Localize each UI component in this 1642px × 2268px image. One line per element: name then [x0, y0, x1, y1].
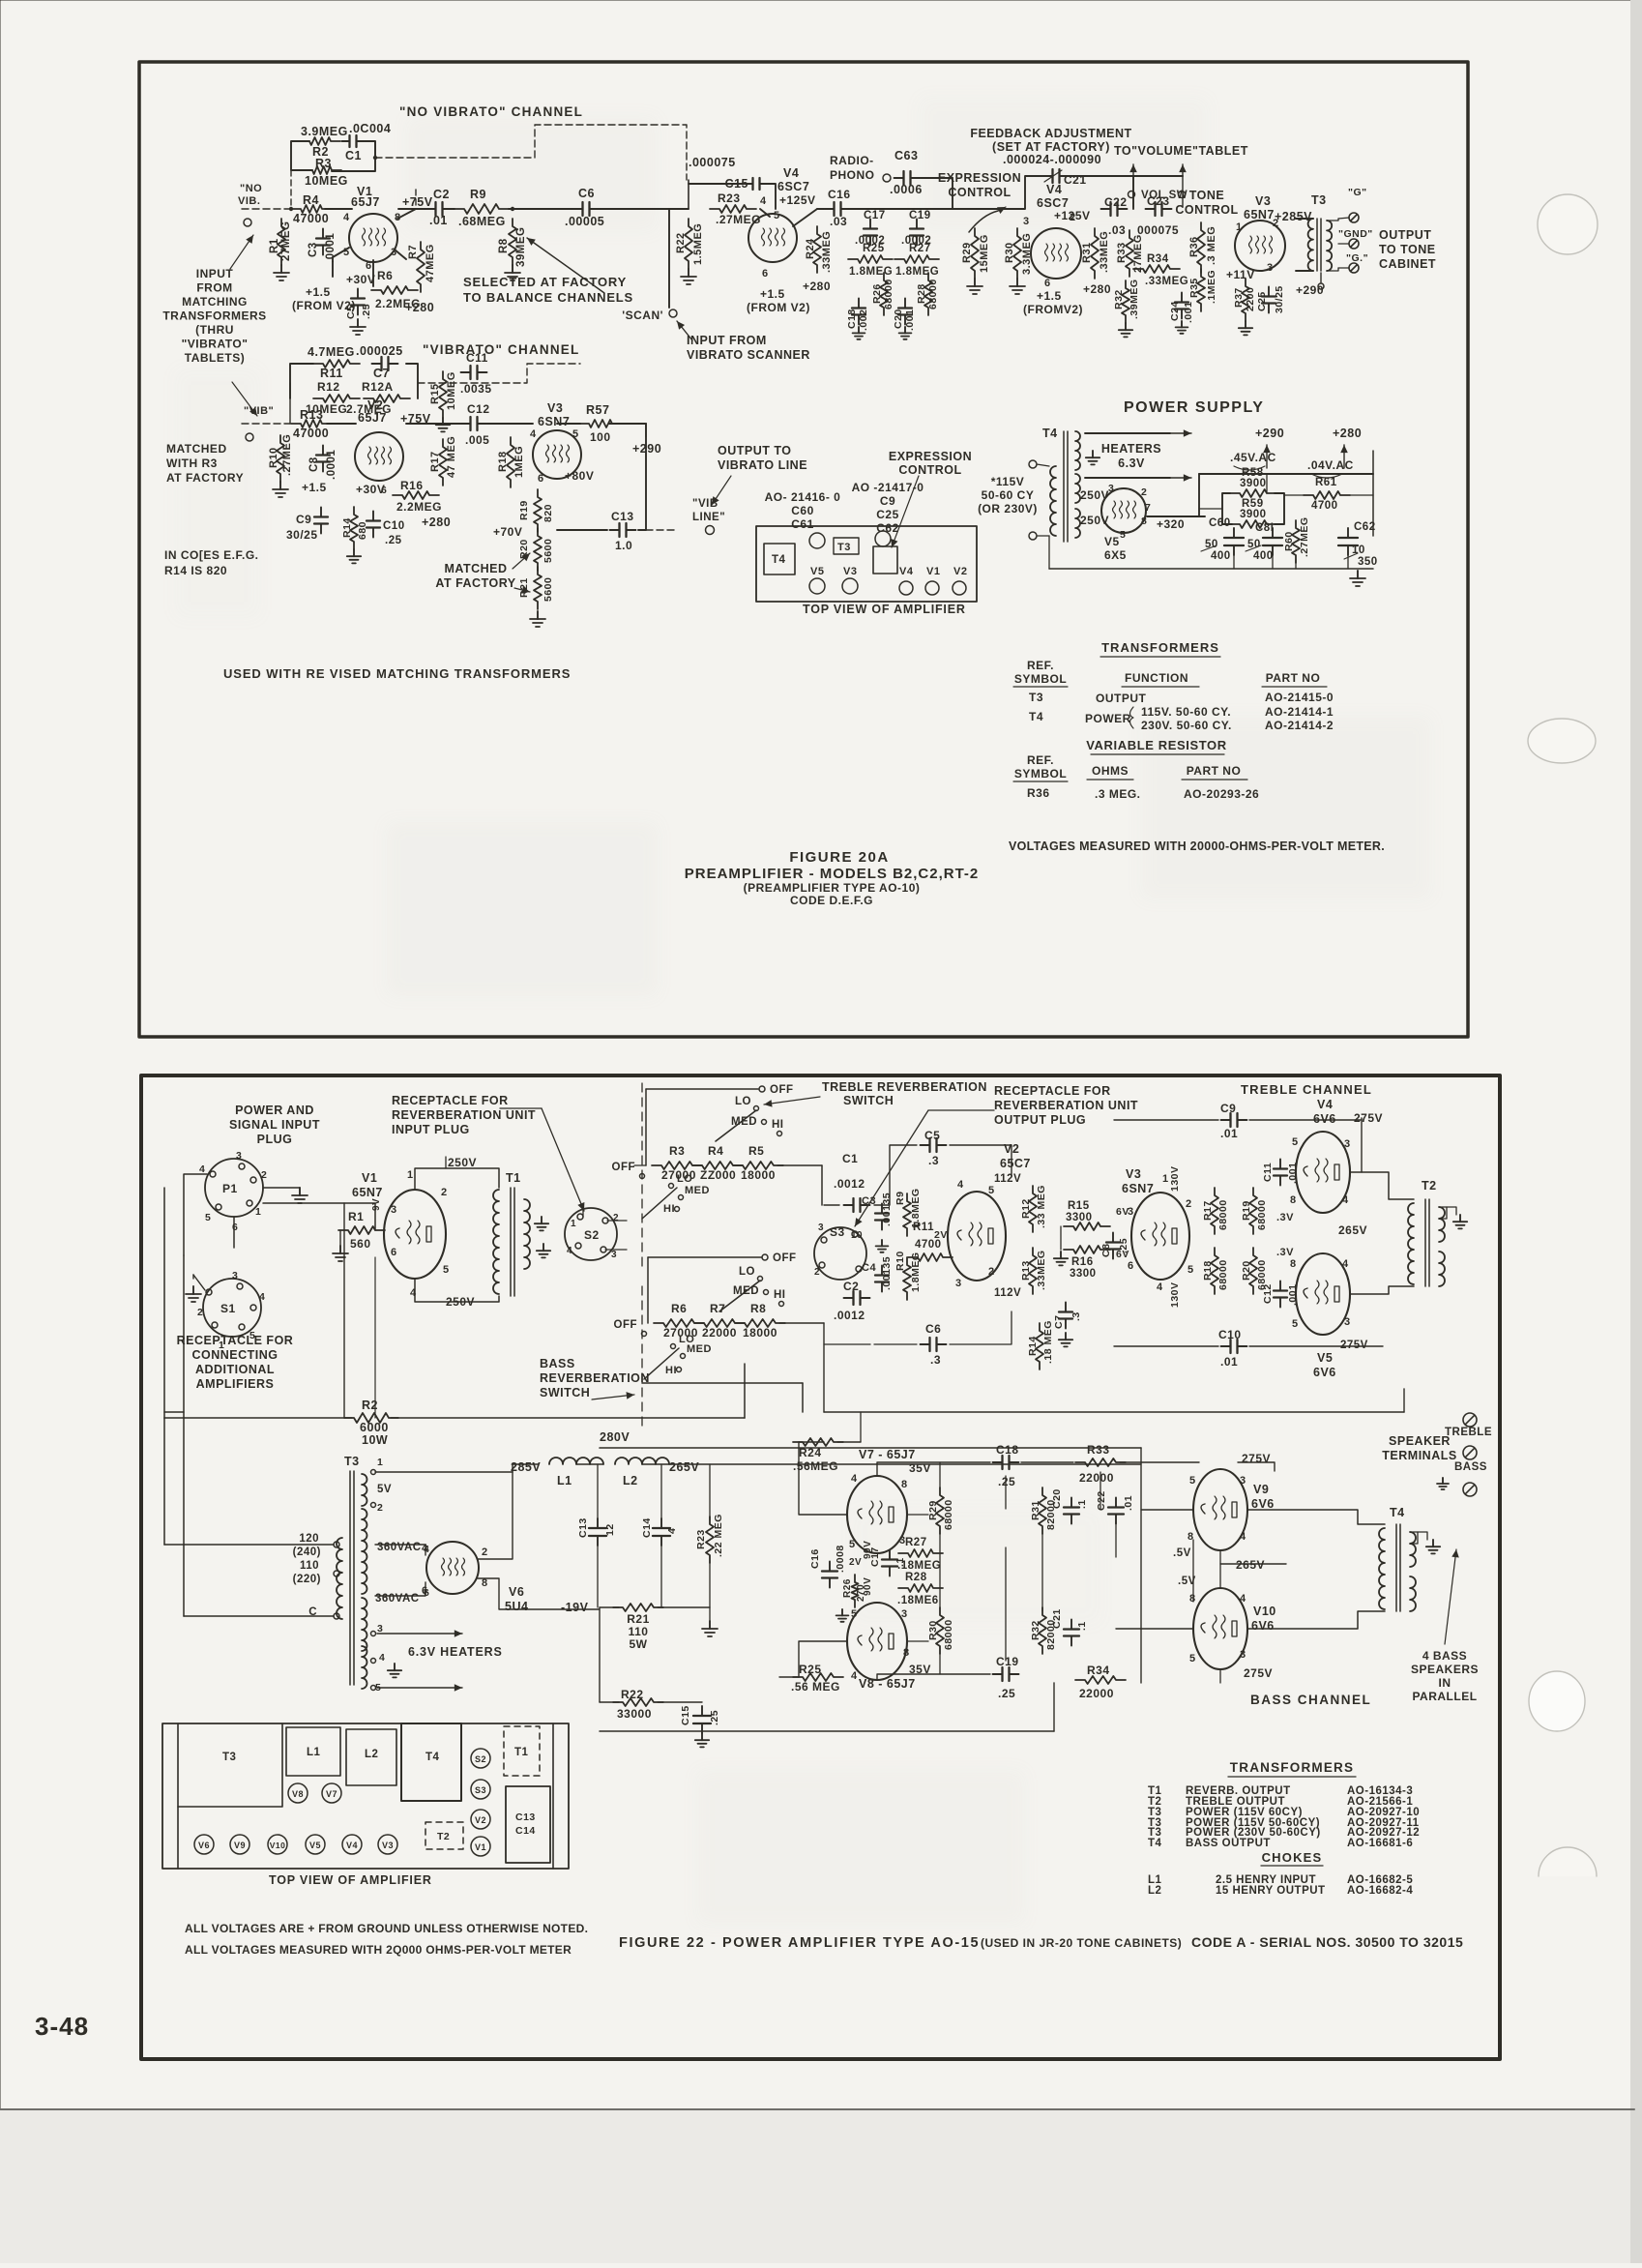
svg-text:275V: 275V — [1242, 1452, 1271, 1465]
svg-text:SELECTED AT FACTORY: SELECTED AT FACTORY — [463, 275, 627, 289]
svg-text:V9: V9 — [234, 1841, 246, 1850]
svg-text:4: 4 — [1240, 1531, 1246, 1543]
svg-text:6: 6 — [538, 473, 544, 485]
ground under R1 — [339, 1230, 341, 1246]
svg-text:1: 1 — [1236, 221, 1243, 233]
svg-text:6: 6 — [366, 260, 372, 272]
svg-text:R31: R31 — [1030, 1500, 1041, 1520]
svg-text:C11: C11 — [1262, 1163, 1274, 1182]
svg-text:68000: 68000 — [1217, 1259, 1229, 1290]
svg-text:T3: T3 — [1029, 691, 1043, 704]
svg-text:6: 6 — [1128, 1260, 1134, 1272]
svg-text:350: 350 — [1358, 556, 1378, 568]
wire R9 to C6 to scan line — [509, 208, 578, 210]
svg-text:R18: R18 — [1202, 1260, 1214, 1281]
svg-text:820: 820 — [542, 504, 554, 522]
svg-text:65J7: 65J7 — [358, 411, 387, 425]
svg-text:AT FACTORY: AT FACTORY — [166, 471, 244, 485]
svg-text:R4: R4 — [303, 193, 319, 207]
svg-text:8: 8 — [901, 1479, 908, 1490]
svg-text:3: 3 — [1240, 1475, 1246, 1487]
svg-text:.000024-.000090: .000024-.000090 — [1003, 153, 1101, 166]
ground under R26 — [841, 1609, 843, 1615]
svg-text:65N7: 65N7 — [352, 1186, 383, 1199]
svg-text:FIGURE 20A: FIGURE 20A — [789, 849, 889, 866]
svg-text:18000: 18000 — [741, 1168, 776, 1182]
svg-text:TRANSFORMERS: TRANSFORMERS — [1230, 1760, 1354, 1775]
ground under C24 — [1181, 321, 1183, 327]
svg-text:C19: C19 — [909, 210, 931, 221]
resistor R24 .33MEG (vertical) — [813, 226, 821, 273]
V6 socket (top view) — [194, 1835, 214, 1854]
svg-text:R32: R32 — [1113, 289, 1125, 309]
svg-text:+30V: +30V — [346, 273, 375, 286]
resistor R9 .68MEG — [454, 204, 509, 214]
svg-text:4700: 4700 — [1311, 500, 1338, 512]
svg-text:6: 6 — [762, 268, 769, 280]
svg-text:.25: .25 — [709, 1710, 720, 1725]
svg-text:5W: 5W — [630, 1637, 648, 1651]
resistor R30 3.3MEG (vertical) — [1013, 228, 1021, 279]
svg-text:65J7: 65J7 — [351, 195, 380, 209]
svg-text:REF.: REF. — [1027, 659, 1054, 672]
resistor R27 .18MEG — [898, 1549, 943, 1557]
V2 socket (top view) — [471, 1810, 490, 1829]
resistor R11 4700 — [908, 1253, 953, 1261]
svg-text:(240): (240) — [293, 1546, 321, 1558]
svg-text:VIBRATO SCANNER: VIBRATO SCANNER — [687, 348, 810, 362]
svg-text:5: 5 — [988, 1185, 995, 1196]
svg-text:AT FACTORY: AT FACTORY — [435, 576, 515, 590]
svg-text:+290: +290 — [1296, 283, 1324, 297]
resistor R28 68000 (vertical) — [924, 273, 932, 315]
svg-text:+80V: +80V — [565, 469, 594, 483]
svg-text:R24: R24 — [799, 1446, 822, 1459]
svg-text:POWER: POWER — [1085, 712, 1131, 725]
svg-text:+1.5: +1.5 — [302, 481, 327, 494]
svg-text:4: 4 — [666, 1528, 678, 1534]
ground under R1 — [280, 265, 282, 273]
resistor R19 68000 (vertical) — [1249, 1188, 1257, 1234]
svg-text:5V: 5V — [377, 1484, 392, 1495]
resistor R2 6000 10W — [344, 1413, 398, 1423]
ground heaters — [1092, 451, 1094, 457]
ground under C5 — [357, 319, 359, 327]
capacitor C2 .0012 — [844, 1297, 854, 1299]
ground under R15 — [442, 418, 444, 425]
svg-text:.1: .1 — [1076, 1621, 1088, 1631]
svg-text:3: 3 — [1023, 216, 1030, 227]
svg-text:VOLTAGES MEASURED WITH 20000-O: VOLTAGES MEASURED WITH 20000-OHMS-PER-VO… — [1009, 839, 1385, 853]
svg-text:R14 IS 820: R14 IS 820 — [164, 564, 227, 577]
ground under R30 — [1016, 279, 1018, 286]
svg-text:265V: 265V — [669, 1460, 699, 1474]
wire T3 primary feed — [164, 1544, 334, 1546]
tube V2 6SC7 (bottom) — [948, 1192, 1006, 1281]
chassis top view box — [756, 526, 977, 602]
screw terminal treble 2 — [1463, 1446, 1477, 1459]
svg-text:(OR 230V): (OR 230V) — [978, 502, 1038, 515]
svg-text:6X5: 6X5 — [1104, 548, 1127, 562]
wire V1 to T1 — [415, 1168, 499, 1190]
wire choke bus — [513, 1463, 538, 1465]
crease line — [0, 2108, 1634, 2110]
resistor R34 22000 — [1075, 1676, 1126, 1684]
wire C6 loop — [824, 1343, 870, 1345]
wire R2 bus — [164, 1417, 352, 1419]
svg-text:R13: R13 — [300, 408, 323, 422]
svg-text:CHOKES: CHOKES — [1262, 1850, 1323, 1865]
svg-text:R27: R27 — [909, 243, 931, 254]
capacitor C11 .0035 — [461, 371, 471, 373]
svg-text:3: 3 — [955, 1278, 962, 1289]
svg-text:OFF: OFF — [770, 1084, 794, 1096]
svg-text:65C7: 65C7 — [1000, 1157, 1031, 1170]
svg-text:1.5MEG: 1.5MEG — [692, 223, 704, 265]
T3 heater taps — [371, 1632, 376, 1636]
svg-text:100: 100 — [590, 430, 611, 444]
svg-text:V2: V2 — [953, 566, 967, 577]
svg-text:C14: C14 — [515, 1825, 536, 1837]
svg-text:3: 3 — [1108, 483, 1114, 494]
svg-text:+70V: +70V — [493, 525, 522, 539]
svg-text:5: 5 — [443, 1264, 450, 1276]
paper lower area below crease — [0, 2110, 1642, 2263]
arrow to volume tablet left — [1132, 164, 1134, 207]
resistor R6 2.2MEG — [371, 286, 418, 294]
svg-text:R21: R21 — [627, 1612, 650, 1626]
svg-text:AO-21414-1: AO-21414-1 — [1265, 705, 1334, 719]
svg-text:280V: 280V — [600, 1430, 630, 1444]
svg-text:L2: L2 — [623, 1474, 638, 1487]
svg-text:39MEG: 39MEG — [515, 227, 527, 268]
svg-text:V5: V5 — [1104, 535, 1120, 548]
svg-text:C2: C2 — [843, 1280, 859, 1293]
resistor R24 .56MEG — [793, 1438, 843, 1446]
svg-text:INPUT: INPUT — [196, 267, 234, 280]
svg-text:R23: R23 — [695, 1529, 707, 1549]
svg-text:5: 5 — [1189, 1475, 1196, 1487]
dashed separator line — [641, 1083, 643, 1267]
arrow matched to R21 — [514, 588, 530, 592]
wire S2 links — [582, 1207, 584, 1217]
svg-text:V5: V5 — [810, 566, 824, 577]
svg-text:.27MEG: .27MEG — [281, 434, 293, 476]
svg-text:AO-20293-26: AO-20293-26 — [1184, 787, 1259, 801]
svg-text:"G": "G" — [1348, 187, 1367, 198]
svg-text:INPUT PLUG: INPUT PLUG — [392, 1123, 470, 1136]
svg-text:R31: R31 — [1081, 242, 1093, 263]
ground under R8 — [512, 265, 513, 273]
svg-text:4 BASS: 4 BASS — [1422, 1649, 1467, 1663]
tube V4 6V6 — [1296, 1132, 1350, 1213]
svg-text:22000: 22000 — [1079, 1687, 1114, 1700]
svg-text:PREAMPLIFIER - MODELS B2,C2: PREAMPLIFIER - MODELS B2,C2,RT-2 — [685, 866, 980, 882]
svg-text:OUTPUT: OUTPUT — [1379, 228, 1431, 242]
svg-text:.001: .001 — [1287, 1284, 1299, 1306]
T3 primary taps — [334, 1542, 339, 1547]
svg-text:"NO VIBRATO" CHANNEL: "NO VIBRATO" CHANNEL — [399, 104, 583, 119]
svg-text:2: 2 — [1141, 486, 1147, 498]
svg-text:C3: C3 — [862, 1195, 876, 1207]
svg-text:"VIBRATO" CHANNEL: "VIBRATO" CHANNEL — [423, 342, 579, 357]
svg-text:.0001: .0001 — [326, 450, 337, 480]
svg-text:5: 5 — [774, 210, 780, 221]
capacitor C12 .005 — [461, 423, 471, 425]
resistor R31 .33MEG (vertical) — [1091, 228, 1099, 279]
screw terminal bass — [1463, 1483, 1477, 1496]
ground under R10 — [279, 482, 281, 489]
svg-text:50-60 CY: 50-60 CY — [982, 488, 1035, 502]
T4 box (top view) — [401, 1723, 461, 1801]
svg-text:T3: T3 — [837, 542, 851, 553]
svg-text:FEEDBACK ADJUSTMENT: FEEDBACK ADJUSTMENT — [970, 127, 1131, 140]
svg-text:.68MEG: .68MEG — [458, 215, 506, 228]
svg-text:35V: 35V — [909, 1461, 931, 1475]
svg-text:S1: S1 — [220, 1302, 236, 1315]
svg-text:27MEG: 27MEG — [280, 221, 292, 262]
ground S2 — [542, 1244, 544, 1251]
svg-text:6SC7: 6SC7 — [777, 180, 809, 193]
svg-text:4: 4 — [851, 1670, 858, 1682]
L1 box (top view) — [286, 1727, 340, 1776]
resistor R18 1MEG (vertical) — [507, 437, 514, 487]
capacitor C19 .25 — [993, 1673, 1003, 1675]
svg-text:1.8MEG: 1.8MEG — [895, 266, 939, 278]
switch treble OFF contact — [759, 1086, 765, 1092]
svg-text:.3: .3 — [930, 1353, 941, 1367]
svg-text:.0001: .0001 — [325, 233, 337, 263]
svg-text:P1: P1 — [222, 1182, 238, 1195]
T4 box in top view — [764, 544, 795, 574]
wire main no-vib signal line — [242, 208, 290, 210]
resistor R12A 2.7MEG — [364, 395, 410, 402]
resistor R4 47000 — [291, 205, 332, 213]
svg-text:130V: 130V — [1169, 1281, 1181, 1308]
svg-text:V3: V3 — [843, 566, 857, 577]
svg-text:+280: +280 — [422, 515, 451, 529]
wire P1 to V1 area — [184, 1174, 207, 1255]
ground under C7 — [1065, 1333, 1067, 1340]
svg-text:MED: MED — [685, 1185, 710, 1196]
svg-text:C1: C1 — [345, 149, 362, 162]
resistor R5 18000 — [733, 1162, 783, 1169]
svg-text:+290: +290 — [632, 442, 661, 456]
svg-text:C25: C25 — [1256, 291, 1268, 311]
svg-text:V10: V10 — [1253, 1605, 1276, 1618]
capacitor C5 .25 (vertical) — [357, 289, 359, 299]
svg-text:S3: S3 — [475, 1785, 486, 1795]
svg-text:C20: C20 — [1051, 1488, 1063, 1509]
svg-text:+280: +280 — [405, 301, 434, 314]
svg-text:2: 2 — [197, 1307, 203, 1318]
svg-text:CONTROL: CONTROL — [1175, 203, 1238, 217]
svg-text:REVERBERATION: REVERBERATION — [540, 1371, 650, 1385]
node VIB LINE terminal — [706, 526, 715, 535]
svg-text:R24: R24 — [805, 238, 816, 259]
svg-text:8: 8 — [482, 1577, 488, 1589]
svg-text:C16: C16 — [809, 1548, 821, 1569]
resistor R14 680 (vertical) — [350, 507, 358, 549]
V5 socket (top view) — [306, 1835, 325, 1854]
svg-text:TOP VIEW OF AMPLIFIER: TOP VIEW OF AMPLIFIER — [803, 603, 966, 616]
svg-text:V8 - 65J7: V8 - 65J7 — [859, 1677, 916, 1691]
svg-text:C9: C9 — [296, 513, 311, 526]
tube V2 6SJ7 — [355, 432, 403, 481]
svg-text:.03: .03 — [1108, 223, 1126, 237]
resistor R21 5600 (vertical) — [534, 567, 542, 609]
capacitor C9 .01 — [1221, 1119, 1231, 1121]
svg-text:C13: C13 — [515, 1811, 536, 1823]
T3 box in top view — [834, 538, 859, 554]
wire bus above V7 — [799, 1441, 824, 1443]
svg-text:15MEG: 15MEG — [979, 234, 990, 273]
svg-text:V5: V5 — [309, 1841, 321, 1850]
resistor R11 4.7MEG — [313, 360, 360, 368]
svg-text:C12: C12 — [1262, 1283, 1274, 1304]
svg-text:5U4: 5U4 — [505, 1600, 528, 1613]
wire V4a plate out — [793, 209, 817, 226]
svg-text:4: 4 — [410, 1287, 417, 1299]
tube V6 5U4 rectifier — [426, 1542, 479, 1594]
T3 secondary terminals — [1349, 213, 1359, 222]
wire 275V feed — [1238, 1462, 1275, 1471]
capacitor C20 .001 (vertical) — [904, 299, 906, 309]
svg-text:+75V: +75V — [402, 195, 433, 209]
svg-text:TO TONE: TO TONE — [1379, 243, 1436, 256]
svg-text:+320: +320 — [1157, 517, 1185, 531]
wire radio-phono join — [921, 177, 953, 179]
svg-text:C19: C19 — [996, 1655, 1019, 1668]
svg-text:.33MEG: .33MEG — [1099, 231, 1110, 273]
svg-text:C63: C63 — [894, 149, 918, 162]
svg-text:4.7MEG: 4.7MEG — [308, 345, 355, 359]
node SCAN terminal — [669, 309, 677, 317]
svg-text:+75V: +75V — [400, 412, 431, 426]
svg-text:TO"VOLUME"TABLET: TO"VOLUME"TABLET — [1114, 144, 1248, 158]
svg-text:265V: 265V — [1338, 1223, 1367, 1237]
svg-text:V1: V1 — [475, 1842, 486, 1852]
svg-text:C6: C6 — [925, 1322, 941, 1336]
resistor R16 2.2MEG — [393, 491, 439, 499]
punch hole 2 — [1528, 719, 1596, 763]
svg-text:C8I: C8I — [1255, 522, 1274, 534]
wire V7 plate — [877, 1462, 990, 1476]
capacitor C18 .25 — [993, 1461, 1003, 1463]
resistor R1 560 — [338, 1226, 385, 1234]
svg-text:TOP VIEW OF AMPLIFIER: TOP VIEW OF AMPLIFIER — [269, 1873, 432, 1887]
svg-text:2: 2 — [988, 1266, 995, 1278]
svg-text:1.8MEG: 1.8MEG — [849, 266, 893, 278]
arrow reverb output to S3 — [928, 1109, 994, 1111]
hole top right — [875, 531, 891, 546]
svg-text:15 HENRY OUTPUT: 15 HENRY OUTPUT — [1216, 1885, 1326, 1897]
svg-text:47MEG: 47MEG — [425, 244, 436, 282]
svg-text:(THRU: (THRU — [195, 323, 234, 337]
tube V4 6SC7 second — [1031, 228, 1081, 279]
svg-text:8: 8 — [1189, 1593, 1196, 1605]
svg-text:.00135: .00135 — [881, 1256, 893, 1290]
svg-text:10MEG: 10MEG — [305, 174, 348, 188]
svg-text:T2: T2 — [1422, 1179, 1437, 1193]
svg-text:+1.5: +1.5 — [1037, 289, 1062, 303]
svg-text:CONTROL: CONTROL — [948, 186, 1011, 199]
tube V5 6X5 rectifier — [1101, 488, 1146, 533]
svg-text:T4: T4 — [772, 554, 786, 566]
resistor R13 .33MEG (vertical) — [1029, 1248, 1037, 1294]
svg-text:R1: R1 — [348, 1210, 364, 1223]
svg-text:EXPRESSION: EXPRESSION — [889, 450, 972, 463]
ground under C15 — [701, 1733, 703, 1740]
receptacle S1 — [203, 1279, 261, 1337]
svg-text:3900: 3900 — [1240, 509, 1267, 520]
resistor R28 .18MEG — [898, 1584, 943, 1592]
svg-text:C10: C10 — [1218, 1328, 1242, 1341]
resistor R26 68000 (vertical) — [880, 273, 888, 315]
top panel border frame (not decorative: figure border) — [139, 62, 1468, 1037]
svg-text:680: 680 — [357, 521, 368, 540]
svg-text:.33 MEG: .33 MEG — [1036, 1185, 1047, 1228]
svg-text:V4: V4 — [899, 566, 914, 577]
capacitor C11 .001 (vertical) — [1279, 1160, 1281, 1169]
svg-text:3: 3 — [391, 247, 397, 258]
svg-text:V1: V1 — [926, 566, 940, 577]
svg-text:OFF: OFF — [612, 1162, 636, 1173]
svg-text:275V: 275V — [1244, 1666, 1273, 1680]
svg-text:R3: R3 — [669, 1144, 685, 1158]
svg-text:4: 4 — [259, 1291, 265, 1303]
svg-text:.0012: .0012 — [834, 1309, 865, 1322]
heater arrows — [377, 1633, 462, 1635]
svg-text:6V6: 6V6 — [1313, 1366, 1336, 1379]
svg-text:5: 5 — [1188, 1264, 1194, 1276]
svg-text:.3: .3 — [1070, 1311, 1082, 1321]
wire mid column — [907, 1514, 928, 1516]
svg-text:R12A: R12A — [362, 380, 394, 394]
svg-text:TERMINALS: TERMINALS — [1382, 1449, 1456, 1462]
svg-text:R25: R25 — [863, 243, 885, 254]
svg-text:2: 2 — [1186, 1198, 1192, 1210]
svg-text:3: 3 — [1344, 1316, 1351, 1328]
svg-text:R61: R61 — [1315, 477, 1337, 488]
svg-text:.000075: .000075 — [689, 156, 736, 169]
svg-text:V2: V2 — [1004, 1142, 1019, 1156]
resistor R7 47MEG (vertical) — [417, 242, 425, 292]
svg-text:C7: C7 — [373, 367, 390, 380]
svg-text:22000: 22000 — [702, 1326, 737, 1340]
svg-text:SIGNAL INPUT: SIGNAL INPUT — [229, 1118, 320, 1132]
L2 box (top view) — [346, 1729, 396, 1785]
svg-text:ADDITIONAL: ADDITIONAL — [195, 1363, 275, 1376]
svg-text:R23: R23 — [718, 191, 741, 205]
svg-text:LINE": LINE" — [692, 512, 725, 523]
svg-text:6.3V: 6.3V — [1118, 457, 1145, 470]
svg-text:6SN7: 6SN7 — [538, 415, 570, 428]
ground near P1 — [263, 1187, 300, 1189]
svg-text:68000: 68000 — [1217, 1199, 1229, 1230]
svg-text:C23: C23 — [1147, 194, 1170, 208]
svg-text:(PREAMPLIFIER TYPE AO-10): (PREAMPLIFIER TYPE AO-10) — [744, 881, 921, 895]
svg-text:C3: C3 — [308, 242, 319, 257]
wire PS B+ bus — [1147, 515, 1199, 517]
svg-text:360VAC: 360VAC — [375, 1593, 420, 1605]
svg-text:.5V: .5V — [1173, 1547, 1191, 1559]
svg-text:10MEG: 10MEG — [446, 371, 457, 410]
resistor R35 .1MEG (vertical) — [1197, 269, 1205, 311]
svg-text:2200: 2200 — [1245, 287, 1256, 311]
svg-text:T1: T1 — [514, 1747, 529, 1758]
svg-text:+1.5: +1.5 — [760, 287, 785, 301]
